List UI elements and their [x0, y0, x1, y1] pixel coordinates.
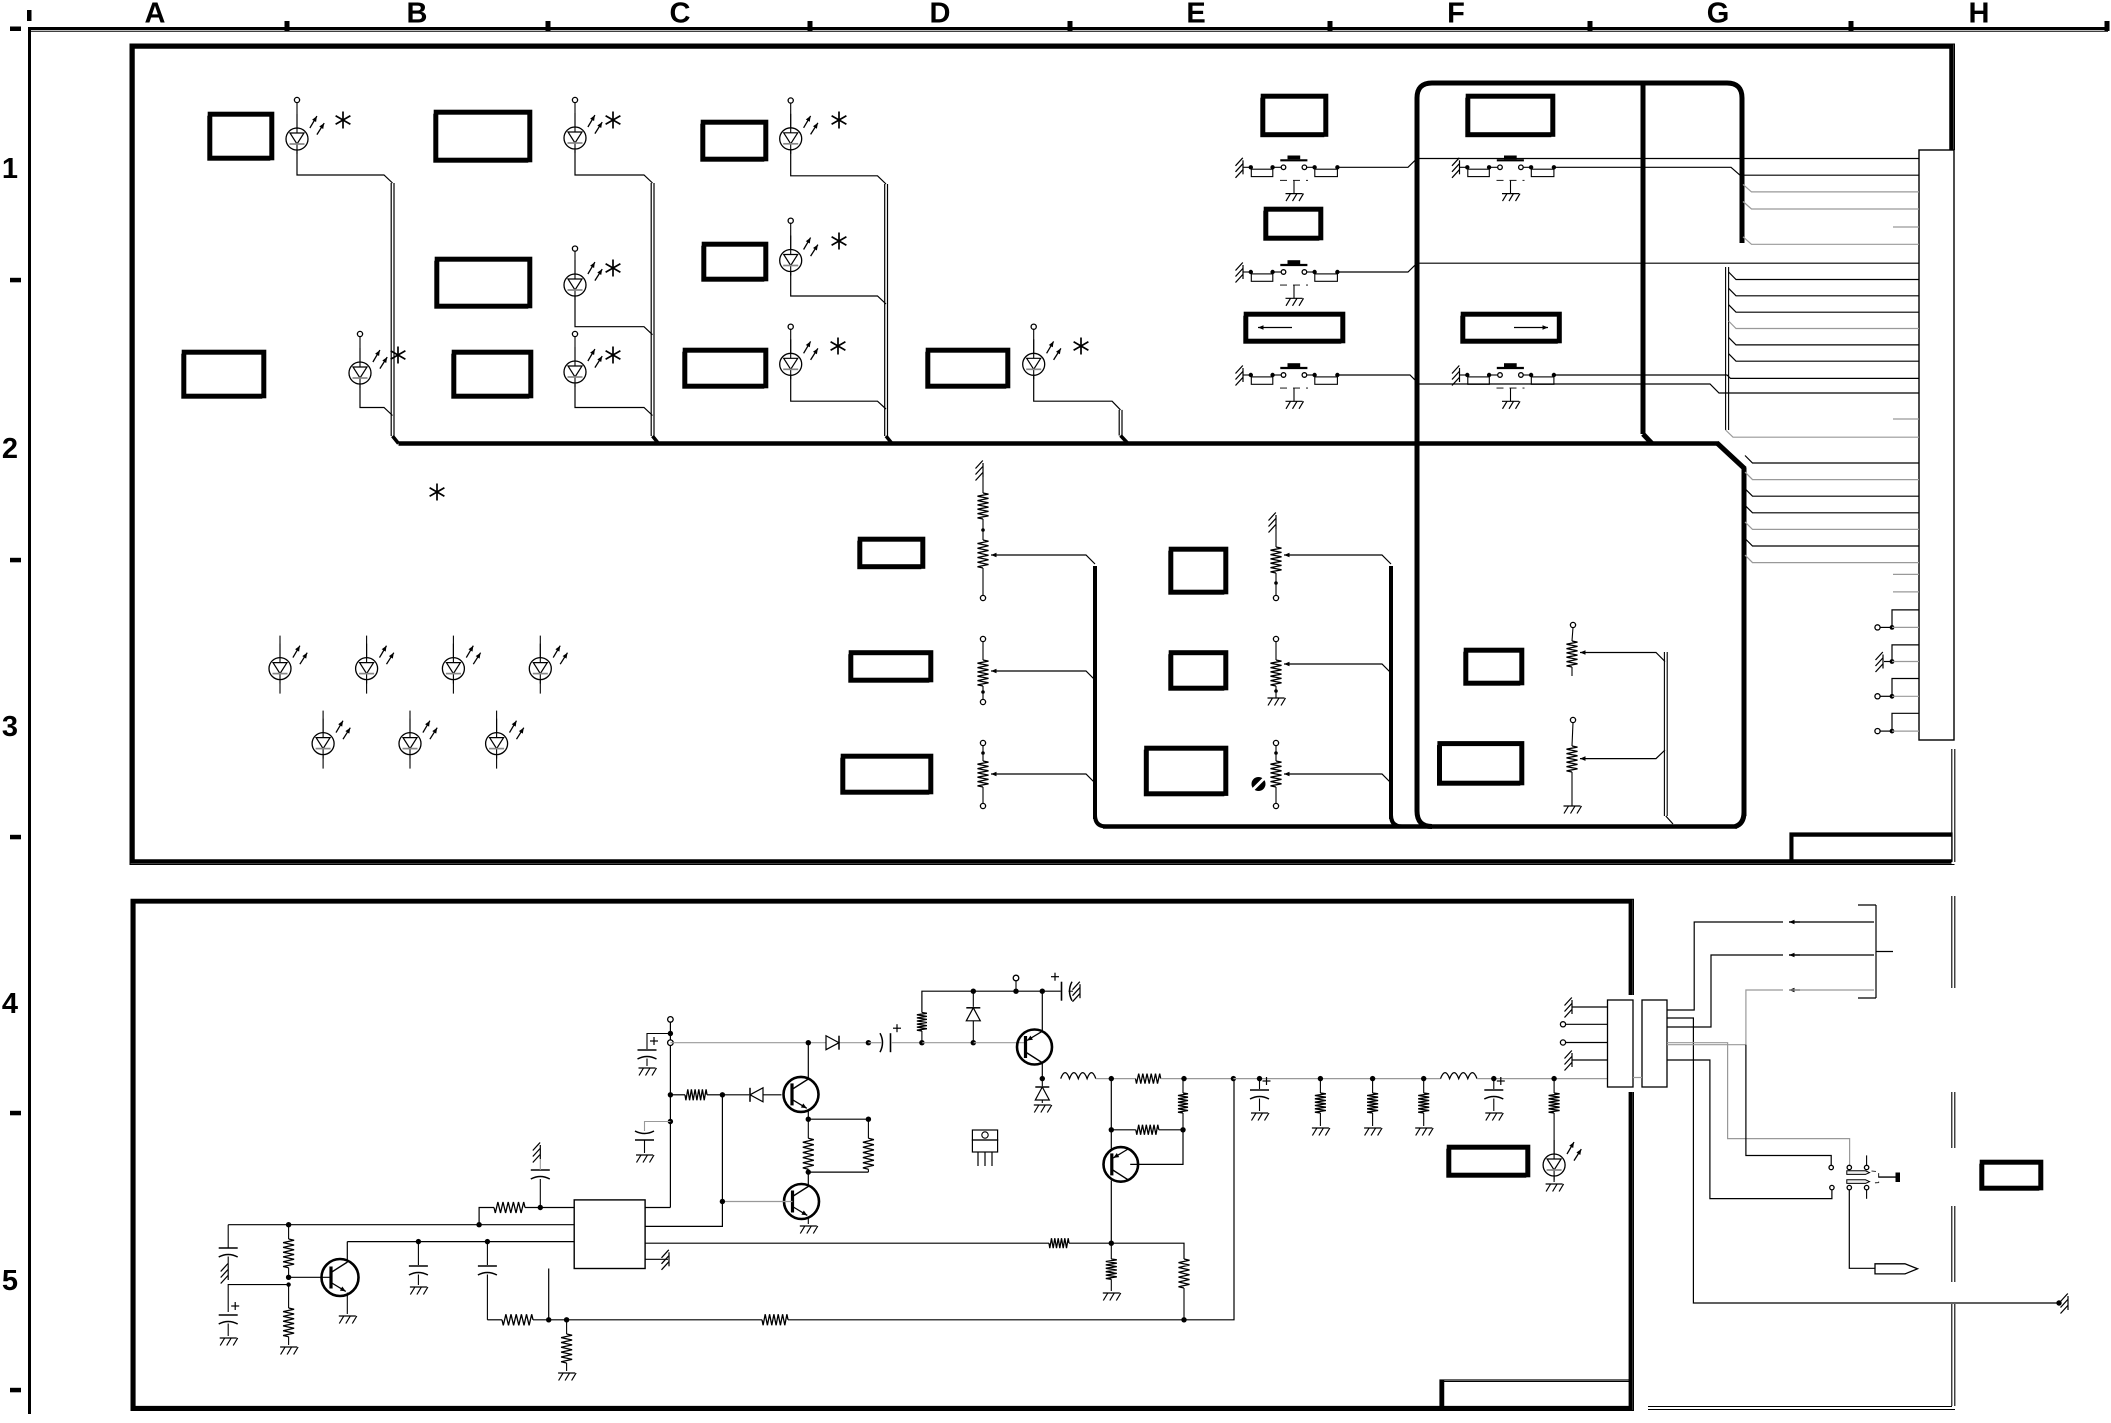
transistor Q2	[784, 1077, 819, 1112]
wire LED C1 to bus	[791, 150, 886, 184]
stub pin 419	[1893, 418, 1919, 420]
resistor R16 LED	[1543, 1076, 1581, 1192]
asterisk B3	[612, 347, 614, 364]
inductor L1	[1061, 1073, 1096, 1079]
wire VR6 wiper	[1301, 774, 1391, 783]
mid section mid vertical	[1389, 566, 1393, 819]
Q4 collector down	[1041, 1063, 1043, 1079]
top board outline	[130, 44, 1955, 865]
wire pin group3 6	[1745, 555, 1919, 563]
bias resistor R2	[280, 1285, 298, 1355]
pot VR8	[1564, 717, 1598, 813]
pot VR2	[978, 636, 1009, 704]
asterisk C3	[837, 338, 839, 355]
bus vertical B	[650, 183, 652, 436]
title block top-right	[1790, 833, 1952, 861]
border frame top ruler	[10, 0, 2110, 31]
bus to vertical joint	[1717, 443, 1745, 469]
asterisk B1	[612, 112, 614, 129]
supply terminal	[668, 1017, 674, 1208]
cap C2 branch	[219, 1285, 289, 1346]
arrow key box left	[1244, 316, 1341, 343]
LED E5	[312, 711, 350, 769]
resistor Rb	[1111, 1125, 1185, 1135]
Q3 base wire	[720, 1199, 793, 1204]
junction sup4	[668, 1119, 673, 1124]
resistor R12	[1178, 1079, 1188, 1130]
indicator box C3	[683, 352, 764, 388]
transistor Q1	[322, 1259, 359, 1296]
key switch S1 (E row1)	[1236, 157, 1340, 201]
rail C resistor R19	[762, 1314, 788, 1325]
key switch S3 (E row3)	[1236, 365, 1340, 409]
J2 arrow wire 3	[1667, 990, 1783, 1045]
below connector border stub	[1951, 749, 1953, 862]
J2 switch feed left	[1746, 1045, 1831, 1165]
plug P1	[1875, 1264, 1918, 1274]
rail C right	[788, 1079, 1234, 1320]
pot VR7	[1567, 622, 1598, 676]
svg-text:5: 5	[2, 1265, 18, 1297]
indicator box A3	[182, 354, 262, 398]
J2 arrow wire 1	[1667, 922, 1783, 1010]
mid box D3	[841, 758, 929, 794]
pot VR1	[978, 528, 1009, 600]
asterisk C1	[838, 112, 840, 129]
wire VR8 wiper	[1597, 750, 1665, 759]
LED E4	[529, 636, 567, 694]
supply to IC	[645, 1207, 670, 1209]
connector bottom pair 1	[1876, 645, 1920, 672]
R7 R8 bottom link	[808, 1171, 868, 1173]
cap C5	[531, 1143, 550, 1208]
svg-text:1: 1	[2, 153, 18, 185]
svg-text:E: E	[1186, 0, 1205, 30]
LED D7	[780, 218, 818, 275]
stub pin 574	[1893, 573, 1919, 575]
wire LED B2 to bus	[575, 296, 653, 335]
mid box F2	[1464, 652, 1520, 685]
mid box D1	[858, 541, 921, 569]
mid section left vertical	[1093, 566, 1097, 819]
rail to Q4 base	[922, 1042, 973, 1044]
wire pin group1 2	[1743, 237, 1919, 245]
diode D4 gnd	[1034, 1079, 1052, 1113]
indicator box C2	[702, 246, 764, 281]
regulator U2	[972, 1130, 997, 1166]
wire base Q1	[289, 1276, 331, 1278]
bottom board outline	[131, 899, 1634, 1410]
key sub-board divider	[1641, 85, 1646, 434]
J2 ground run	[1667, 1018, 2059, 1303]
resistor R18	[1103, 1243, 1121, 1300]
resistor R8	[863, 1119, 874, 1172]
wire VR4 wiper	[1301, 555, 1391, 564]
svg-text:2: 2	[2, 433, 18, 465]
wire S4 to connector	[1554, 167, 1919, 175]
mid box E2	[1169, 655, 1224, 691]
wire S1 to connector	[1337, 159, 1919, 168]
wire VR3 wiper	[1008, 774, 1095, 783]
asterisk mid	[436, 484, 438, 501]
Q2 collector	[807, 1043, 809, 1079]
wire pin group3 0	[1745, 456, 1919, 464]
IC rail B	[645, 1238, 1114, 1248]
resistor R5	[558, 1320, 576, 1381]
wire pin group2 4	[1729, 337, 1919, 345]
J2 switch feed upper	[1667, 1043, 1850, 1165]
svg-text:G: G	[1707, 0, 1730, 30]
wire pin group3 1	[1745, 472, 1919, 480]
key box E2	[1264, 211, 1319, 240]
LED D2	[349, 331, 387, 388]
wire pin group2 3	[1729, 321, 1919, 329]
pot VR4	[1269, 513, 1302, 601]
stub pin 592	[1893, 591, 1919, 593]
border frame left ruler	[2, 27, 30, 1414]
Q2 emitter chain	[806, 1110, 872, 1122]
pot VR5	[1268, 636, 1302, 705]
cap C6 branch	[635, 1122, 670, 1163]
mid box D2	[849, 655, 929, 683]
J2 arrow wire 2	[1667, 955, 1783, 1027]
wire VR2 wiper	[1008, 671, 1095, 680]
wire pin group3 5	[1745, 539, 1919, 547]
mid box F3	[1438, 746, 1520, 786]
cap C11	[1484, 1076, 1505, 1121]
J2 switch feed lower	[1667, 1060, 1832, 1199]
switch to plug wire	[1849, 1190, 1874, 1268]
vertical to IC pin2	[645, 1095, 722, 1227]
cap C9 gnd	[1051, 973, 1080, 1002]
junction W1-R1	[286, 1222, 291, 1227]
indicator box D3	[926, 352, 1006, 388]
connector J2 left	[1608, 1000, 1634, 1087]
LED D4	[564, 246, 602, 300]
indicator box B3	[452, 354, 529, 398]
F wiper vertical	[1663, 652, 1665, 816]
adjust lock symbol	[1252, 777, 1266, 791]
arrow key box right	[1461, 316, 1558, 343]
IC gnd stub	[645, 1250, 669, 1270]
diode D1	[722, 1088, 781, 1102]
LED D6	[780, 98, 818, 154]
IC bottom pin wire	[548, 1269, 550, 1320]
Q5 base wire	[1130, 1130, 1183, 1165]
wire pin group3 2	[1745, 489, 1919, 497]
asterisk C2	[838, 233, 840, 250]
Q3 emitter gnd	[800, 1218, 818, 1234]
bus vertical D	[1118, 410, 1120, 436]
svg-text:D: D	[930, 0, 951, 30]
junction W1-R3	[476, 1222, 481, 1227]
wire pin group3 3	[1745, 505, 1919, 513]
junction sup3	[668, 1092, 673, 1097]
IC U1	[574, 1200, 645, 1269]
resistor R13	[1312, 1076, 1330, 1136]
connector bottom pair 3	[1875, 713, 1919, 733]
indicator box B1	[434, 114, 528, 162]
wire LED A3 to bus	[360, 384, 393, 416]
resistor R17	[1179, 1259, 1190, 1320]
connector feed vertical mid	[1725, 267, 1727, 430]
wire pin 437	[1726, 430, 1919, 437]
J2 rail link	[1633, 1077, 1642, 1079]
wire pin group2 1	[1729, 288, 1919, 296]
right section border	[1648, 896, 1955, 1410]
R3 branch	[479, 1202, 574, 1225]
LED E1	[269, 636, 307, 694]
J2 left pins	[1560, 998, 1607, 1071]
LED E6	[399, 711, 437, 769]
cap C7 branch	[638, 1034, 671, 1076]
title block bottom	[1440, 1380, 1631, 1410]
LED E3	[442, 636, 480, 694]
connector J2 right	[1642, 1000, 1667, 1087]
main rail right	[1233, 1078, 1440, 1080]
pot VR3	[978, 740, 1009, 808]
wire S5 to connector	[1554, 375, 1919, 378]
wire pin group1 1	[1743, 202, 1919, 210]
connector feed vertical upper	[1740, 98, 1745, 243]
R6	[670, 1089, 725, 1100]
stub pin 227	[1893, 226, 1919, 228]
Q2 collector rail	[670, 1042, 826, 1044]
resistor R15	[1415, 1076, 1433, 1136]
wire LED A1 to bus	[297, 150, 393, 183]
upper rail	[917, 991, 1061, 1042]
asterisk A1	[342, 112, 344, 129]
detector switch S6	[1829, 1155, 1900, 1198]
svg-text:3: 3	[2, 711, 18, 743]
wire pin group2 2	[1729, 305, 1919, 313]
LED E2	[356, 636, 394, 694]
key switch S2 (E row2)	[1236, 262, 1340, 306]
wire VR7 wiper	[1597, 653, 1665, 662]
wire S3 to connector	[1337, 375, 1919, 393]
bias resistor R1	[283, 1225, 294, 1278]
Q5 collector	[1110, 1181, 1112, 1244]
LED E7	[486, 711, 524, 769]
resistor R7	[803, 1119, 814, 1175]
LED D1	[286, 97, 324, 154]
main rail segs	[1096, 1074, 1236, 1084]
pot VR6	[1271, 740, 1302, 808]
key sub-board outline	[1417, 83, 1742, 827]
junction C10	[1257, 1076, 1262, 1081]
key box E1	[1261, 98, 1324, 137]
junction sup2	[668, 1040, 674, 1046]
svg-text:C: C	[670, 0, 691, 30]
wire LED C3 to bus	[791, 375, 886, 409]
mid section bottom edge	[1103, 824, 1737, 829]
mid box E3	[1144, 750, 1224, 796]
diode D3	[966, 989, 980, 1043]
rail B corner R17	[1111, 1243, 1184, 1259]
LED D8	[780, 324, 818, 379]
diode D2	[826, 1036, 871, 1050]
supply terminal 2	[1013, 975, 1019, 994]
LED cathode bus	[399, 441, 1720, 446]
svg-text:H: H	[1969, 0, 1990, 30]
indicator box A1	[208, 116, 270, 160]
junction base node	[286, 1275, 291, 1280]
indicator box C1	[701, 124, 764, 161]
connector bottom pair 2	[1875, 679, 1919, 699]
svg-text:4: 4	[2, 988, 18, 1020]
Q1 collector wire	[346, 1242, 348, 1263]
asterisk B2	[612, 260, 614, 277]
inductor L2	[1441, 1073, 1477, 1079]
LED D5	[564, 331, 602, 387]
bus vertical A	[390, 183, 392, 436]
resistor R14	[1364, 1076, 1382, 1136]
transistor Q4	[1017, 1030, 1052, 1065]
connector J1 body	[1919, 150, 1954, 740]
LED D9	[1023, 324, 1061, 379]
junction sup1	[668, 1031, 673, 1036]
wire pin group1 0	[1743, 184, 1919, 192]
Q5 emitter	[1110, 1130, 1112, 1149]
wire LED D3 to bus	[1034, 375, 1121, 410]
bracket right	[1875, 905, 1877, 998]
wire pin group2 0	[1729, 272, 1919, 280]
input rail W1	[228, 1224, 574, 1226]
wire LED C2 to bus	[791, 272, 886, 304]
resistor above pot VR1	[976, 461, 989, 541]
svg-text:F: F	[1447, 0, 1465, 30]
key switch S5 (F row3)	[1452, 365, 1556, 409]
key switch S4 (F row1)	[1452, 157, 1556, 201]
bus vertical C	[884, 184, 886, 436]
rail after L2	[1477, 1078, 1608, 1080]
Q1 emitter wire	[339, 1293, 357, 1324]
key sub-board lower right edge	[1742, 468, 1747, 816]
wire pin group2 5	[1729, 354, 1919, 362]
wire VR5 wiper	[1301, 664, 1391, 673]
asterisk A3	[397, 347, 399, 364]
LED D3	[564, 97, 602, 153]
wire S2 to connector	[1337, 263, 1919, 272]
wire LED B3 to bus	[575, 384, 653, 416]
Q4 emitter up	[1041, 991, 1043, 1031]
svg-text:B: B	[407, 0, 428, 30]
wire LED B1 to bus	[575, 150, 653, 183]
rail W2	[347, 1241, 574, 1243]
right label box	[1980, 1164, 2039, 1190]
transistor Q5	[1104, 1147, 1139, 1182]
svg-text:A: A	[145, 0, 166, 30]
input cap C1	[219, 1225, 238, 1284]
cap C10	[1250, 1077, 1271, 1121]
indicator box B2	[435, 261, 528, 308]
cap C4	[478, 1239, 497, 1320]
mid box E1	[1169, 551, 1224, 594]
key box F1	[1466, 98, 1551, 137]
wire pin group3 4	[1745, 522, 1919, 530]
transistor Q3	[784, 1172, 819, 1219]
board label box	[1447, 1149, 1526, 1177]
cap C8	[868, 1024, 924, 1052]
junction R17 rail	[1181, 1317, 1186, 1322]
cap C3	[409, 1239, 428, 1295]
rail C low	[487, 1314, 762, 1325]
wire VR1 wiper	[1008, 555, 1095, 564]
connector bottom pair 0	[1875, 610, 1919, 630]
asterisk D3	[1080, 338, 1082, 355]
